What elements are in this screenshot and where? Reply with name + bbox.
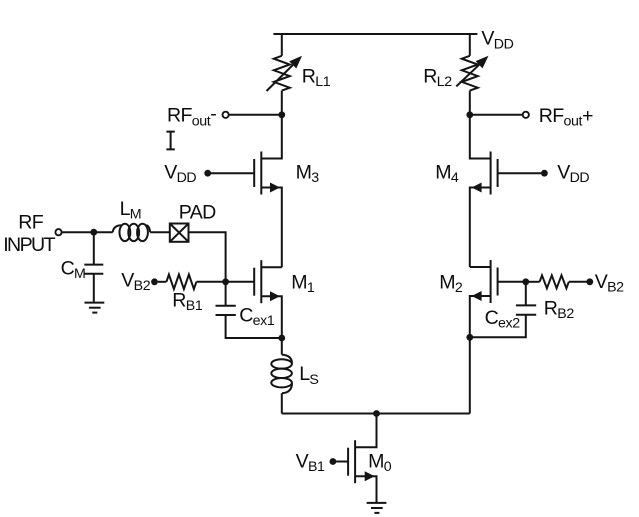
wire LM to PAD bbox=[150, 231, 170, 233]
wire tail rail bbox=[282, 413, 470, 415]
M4 drain bbox=[470, 115, 491, 159]
svg-text:VDD: VDD bbox=[557, 162, 589, 187]
port RFout- terminal bbox=[223, 112, 229, 118]
svg-text:LM: LM bbox=[120, 198, 142, 223]
M4 channel bar bbox=[490, 152, 492, 195]
node tail junction bbox=[373, 410, 380, 417]
wire right branch down to tail rail bbox=[469, 337, 471, 413]
resistor RL1 bbox=[267, 35, 303, 112]
M2 gate lead bbox=[498, 281, 526, 283]
M0 gate lead bbox=[336, 461, 348, 463]
resistor RB2 bbox=[526, 275, 587, 288]
M1 drain bbox=[261, 266, 282, 268]
wire PAD to M1 gate node bbox=[189, 232, 226, 281]
svg-text:M4: M4 bbox=[435, 162, 459, 187]
M0 gate bar bbox=[347, 448, 349, 476]
svg-text:Cex2: Cex2 bbox=[485, 307, 521, 332]
svg-text:VB2: VB2 bbox=[595, 271, 624, 296]
node VB1 terminal bbox=[330, 458, 337, 465]
capacitor Cex1 bbox=[216, 282, 282, 338]
svg-text:INPUT: INPUT bbox=[3, 234, 55, 256]
node RFout- drain node bbox=[278, 111, 285, 118]
svg-text:M2: M2 bbox=[439, 272, 463, 297]
wire to RFout- port bbox=[229, 114, 281, 116]
wire input to node bbox=[62, 231, 94, 233]
wire to RFout+ port bbox=[470, 114, 522, 116]
M4 source with arrow bbox=[470, 188, 491, 268]
resistor RB1 bbox=[158, 275, 226, 290]
svg-text:RL2: RL2 bbox=[423, 66, 452, 91]
port RFout+ terminal bbox=[523, 112, 529, 118]
port RF INPUT terminal bbox=[55, 229, 61, 235]
node VDD right bias dot bbox=[541, 170, 548, 177]
transistor M0 bbox=[336, 414, 377, 503]
svg-text:CM: CM bbox=[61, 257, 86, 282]
svg-text:Cex1: Cex1 bbox=[239, 305, 275, 330]
ground (under CM) bbox=[85, 303, 105, 313]
node VB2 right terminal bbox=[586, 278, 593, 285]
transistor M3 bbox=[211, 115, 282, 267]
svg-text:RB1: RB1 bbox=[172, 290, 203, 315]
ground (under M0) bbox=[367, 503, 387, 513]
wire node to LM bbox=[94, 231, 113, 233]
M2 channel bar bbox=[490, 260, 492, 303]
node M2 gate junction bbox=[522, 278, 529, 285]
node M1 gate junction bbox=[222, 278, 229, 285]
M3 drain bbox=[261, 115, 282, 159]
capacitor CM bbox=[84, 232, 103, 302]
transistor M2 bbox=[470, 260, 526, 337]
M3 source with arrow bbox=[261, 188, 282, 268]
M3 channel bar bbox=[260, 152, 262, 195]
M4 gate lead bbox=[498, 172, 542, 174]
svg-text:M0: M0 bbox=[368, 450, 392, 475]
M0 channel bar bbox=[354, 440, 356, 483]
inductor LS bbox=[271, 338, 292, 414]
svg-text:VB2: VB2 bbox=[121, 269, 150, 294]
M0 source with arrow bbox=[355, 476, 376, 502]
M2 source with arrow bbox=[470, 296, 491, 337]
svg-text:VDD: VDD bbox=[164, 162, 196, 187]
node input junction bbox=[90, 229, 97, 236]
svg-text:RB2: RB2 bbox=[544, 297, 575, 322]
M4 gate bar bbox=[497, 159, 499, 187]
transistor M4 bbox=[470, 115, 541, 267]
text cursor artifact (I-beam) bbox=[166, 132, 174, 150]
M1 channel bar bbox=[260, 260, 262, 303]
node source junction right bbox=[466, 334, 473, 341]
M1 gate lead bbox=[226, 281, 255, 283]
svg-text:VB1: VB1 bbox=[296, 451, 325, 476]
node VB2 left terminal bbox=[151, 278, 158, 285]
node RFout+ drain node bbox=[466, 111, 473, 118]
svg-text:RF: RF bbox=[18, 211, 43, 233]
M3 gate bar bbox=[253, 159, 255, 187]
svg-text:LS: LS bbox=[299, 363, 318, 388]
M2 gate bar bbox=[497, 268, 499, 296]
svg-text:VDD: VDD bbox=[481, 28, 513, 53]
svg-text:RFout+: RFout+ bbox=[539, 105, 593, 130]
M3 gate lead bbox=[211, 172, 255, 174]
M0 drain bbox=[355, 414, 376, 448]
wire VDD top rail bbox=[273, 33, 477, 35]
svg-text:M1: M1 bbox=[291, 272, 315, 297]
node source junction left bbox=[278, 335, 285, 342]
svg-text:RL1: RL1 bbox=[302, 66, 331, 91]
svg-text:M3: M3 bbox=[296, 162, 320, 187]
svg-text:RFout-: RFout- bbox=[167, 103, 216, 129]
capacitor Cex2 bbox=[470, 282, 536, 338]
inductor LM bbox=[113, 224, 151, 241]
transistor M1 bbox=[226, 260, 282, 338]
resistor RL2 bbox=[456, 35, 488, 112]
svg-text:PAD: PAD bbox=[179, 202, 216, 224]
M1 gate bar bbox=[253, 268, 255, 296]
M1 source with arrow bbox=[261, 296, 282, 338]
M2 drain bbox=[470, 266, 491, 268]
node VDD left bias dot bbox=[204, 170, 211, 177]
pad PAD (bond pad symbol) bbox=[170, 224, 189, 242]
